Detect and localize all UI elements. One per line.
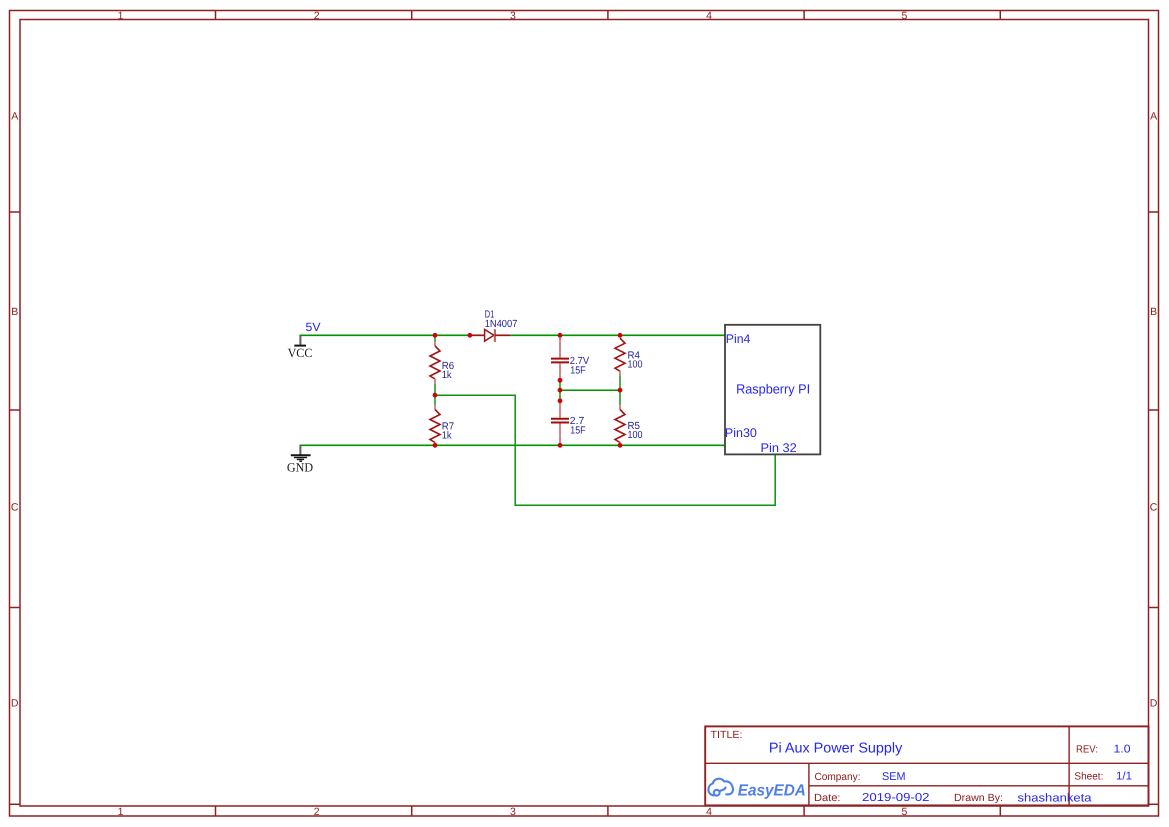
svg-text:1k: 1k (442, 370, 453, 381)
svg-text:D: D (11, 697, 19, 709)
svg-text:3: 3 (510, 10, 516, 22)
junction: R4/R5 node (618, 388, 623, 393)
junction: R4 top on 5V rail (618, 333, 623, 338)
svg-text:1: 1 (118, 10, 124, 22)
svg-text:1k: 1k (442, 430, 453, 441)
svg-text:VCC: VCC (288, 346, 313, 360)
svg-text:5: 5 (901, 806, 907, 818)
wire capacitor midpoint link (559, 380, 561, 401)
junction: R6/R7 node A (433, 393, 438, 398)
ground symbol GND (287, 445, 313, 474)
svg-text:Pin30: Pin30 (725, 426, 757, 440)
wire R5 top lead (619, 390, 621, 405)
svg-text:1/1: 1/1 (1116, 771, 1132, 783)
resistor R4 (615, 338, 625, 375)
svg-text:Drawn By:: Drawn By: (954, 793, 1003, 804)
svg-text:Date:: Date: (814, 793, 841, 804)
resistor R7 (430, 405, 440, 445)
svg-text:5: 5 (901, 10, 907, 22)
wire GND bottom rail (300, 444, 726, 446)
svg-text:Pin 32: Pin 32 (761, 441, 797, 455)
svg-text:4: 4 (706, 806, 712, 818)
junction: R5 bottom on GND rail (618, 443, 623, 448)
svg-text:Company:: Company: (815, 772, 861, 783)
svg-text:B: B (11, 306, 18, 318)
junction: R7 bottom on GND rail (433, 443, 438, 448)
power flag VCC (288, 335, 313, 360)
part U1 Raspberry PI box (725, 325, 820, 455)
svg-text:4: 4 (706, 10, 712, 22)
svg-text:1N4007: 1N4007 (485, 319, 518, 330)
wire 5V top rail right (510, 334, 725, 336)
wire 5V top rail left (300, 334, 471, 336)
svg-text:TITLE:: TITLE: (711, 730, 743, 741)
junction: D1 anode on 5V rail (468, 333, 473, 338)
junction: C2 top (558, 398, 563, 403)
svg-text:Pin4: Pin4 (726, 332, 751, 346)
diode D1 1N4007 (470, 329, 510, 342)
junction: C2 bottom on GND rail (558, 443, 563, 448)
svg-text:Pi Aux Power Supply: Pi Aux Power Supply (769, 740, 903, 756)
svg-text:A: A (1150, 110, 1157, 122)
junction: cap mid node (558, 388, 563, 393)
svg-text:1.0: 1.0 (1114, 744, 1131, 756)
svg-text:1: 1 (118, 806, 124, 818)
svg-text:15F: 15F (570, 365, 585, 376)
svg-text:C: C (11, 502, 19, 514)
svg-text:2: 2 (314, 806, 320, 818)
svg-text:100: 100 (628, 430, 643, 441)
svg-text:2: 2 (314, 10, 320, 22)
svg-text:EasyEDA: EasyEDA (738, 782, 806, 800)
wire R6 top lead (434, 335, 436, 341)
svg-text:A: A (11, 110, 18, 122)
svg-text:D: D (1150, 697, 1158, 709)
svg-text:2019-09-02: 2019-09-02 (862, 792, 930, 804)
wire R6 bottom to Pin 32 (node A) (435, 395, 775, 505)
svg-text:B: B (1150, 306, 1157, 318)
svg-text:SEM: SEM (882, 771, 906, 783)
svg-text:Sheet:: Sheet: (1074, 772, 1103, 783)
svg-text:Raspberry PI: Raspberry PI (736, 381, 810, 396)
svg-text:100: 100 (628, 359, 643, 370)
junction: C1 top on 5V rail (558, 333, 563, 338)
wire R7 top lead (434, 395, 436, 405)
svg-text:GND: GND (287, 460, 313, 474)
junction: C1 bottom (558, 378, 563, 383)
EasyEDA logo (708, 779, 733, 796)
wire R4 bottom lead (619, 375, 621, 390)
junction: R6 top on 5V rail (433, 333, 438, 338)
svg-text:shashanketa: shashanketa (1018, 792, 1093, 804)
wire mid node to R4/R5 junction (560, 389, 620, 391)
wire R6 bottom lead (434, 384, 436, 395)
resistor R6 (430, 342, 440, 385)
capacitor C2 (2.7 15F) (551, 401, 569, 445)
capacitor C1 (2.7V 15F) (551, 336, 569, 380)
svg-text:15F: 15F (570, 425, 585, 436)
svg-text:3: 3 (510, 806, 516, 818)
resistor R5 (615, 405, 625, 445)
svg-text:5V: 5V (306, 320, 321, 334)
svg-text:C: C (1150, 502, 1158, 514)
svg-text:REV:: REV: (1076, 745, 1098, 756)
title block (705, 726, 1148, 805)
